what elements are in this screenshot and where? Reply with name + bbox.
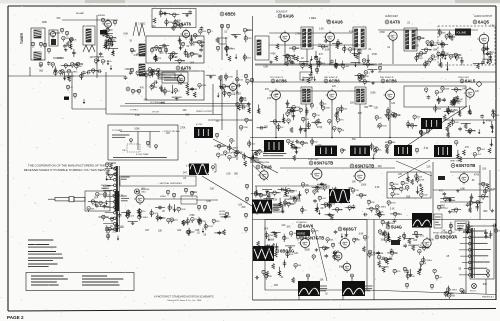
wire [312, 122, 322, 124]
svg-text:.005: .005 [273, 285, 278, 287]
resistor R452 12K [445, 291, 453, 296]
resistor R411 10K [368, 253, 376, 258]
coil L2 [34, 52, 41, 60]
svg-text:.001: .001 [143, 100, 148, 102]
svg-text:15K: 15K [135, 91, 140, 93]
svg-text:6AU6: 6AU6 [332, 20, 343, 25]
ground [64, 48, 68, 51]
transformer (solid) T15 horiz blocking transformer [329, 189, 351, 203]
svg-text:6CB6: 6CB6 [329, 79, 340, 84]
ground [336, 111, 340, 114]
wire [263, 197, 273, 199]
transformer (solid) T19 power T [342, 281, 365, 296]
svg-text:12K: 12K [248, 38, 252, 40]
resistor R94 56K [349, 48, 357, 53]
service note box [108, 125, 178, 160]
capacitor C26 [481, 61, 485, 65]
svg-text:1K: 1K [373, 155, 376, 157]
resistor R31 220K [64, 64, 73, 69]
fine print [159, 75, 171, 77]
resistor R330 56K [301, 183, 309, 188]
resistor R333 33K [328, 202, 336, 207]
resistor R290 150 [156, 216, 164, 221]
wire [299, 191, 301, 199]
wire [250, 137, 496, 139]
wire [253, 248, 263, 250]
resistor R435 [408, 238, 411, 244]
resistor R200 220K [287, 109, 296, 114]
resistor R401 1K [283, 236, 290, 241]
wire [478, 183, 488, 185]
resistor R189 150 [313, 113, 321, 118]
resistor R99 [276, 44, 279, 50]
transformer (solid) T17 horiz output transformer [253, 246, 274, 261]
resistor R273 [99, 201, 102, 206]
IF transformer T1 [301, 27, 313, 49]
resistor R275 10K [87, 207, 95, 212]
svg-text:33K: 33K [66, 38, 70, 40]
tube V16 [310, 167, 322, 181]
transformer (solid) T8 T1 [264, 140, 284, 152]
ground arrow [341, 233, 343, 238]
wire [244, 53, 246, 61]
fine print [121, 196, 129, 201]
resistor R308 33K [212, 219, 220, 224]
svg-text:470K: 470K [364, 76, 369, 78]
svg-text:C4D: C4D [122, 150, 126, 152]
svg-text:1 MEG: 1 MEG [141, 217, 148, 219]
resistor R39 [130, 48, 133, 53]
junction [329, 63, 331, 65]
wire [287, 250, 289, 258]
transformer (solid) T13 width coil [189, 164, 210, 176]
svg-text:68K: 68K [433, 49, 438, 51]
resistor R161 220K [239, 126, 248, 131]
wire [332, 208, 342, 210]
resistor R70 [228, 56, 231, 62]
resistor R409 [363, 246, 366, 252]
socket body (solid) [115, 191, 120, 211]
fine print [28, 264, 58, 267]
svg-text:6CB6: 6CB6 [386, 79, 397, 84]
capacitor C82 [466, 203, 470, 207]
wire [214, 145, 224, 147]
svg-text:22K: 22K [177, 21, 182, 23]
resistor R104 [315, 68, 318, 73]
wire [188, 228, 190, 236]
resistor R129 [439, 62, 442, 67]
wire [461, 122, 471, 124]
resistor R59 12K [148, 68, 156, 73]
resistor R350 .05 [266, 192, 274, 197]
svg-text:.047: .047 [145, 230, 150, 232]
wire [64, 75, 74, 77]
wire [156, 217, 166, 219]
svg-text:.047: .047 [305, 102, 310, 104]
ground [106, 33, 110, 36]
resistor R178 [155, 145, 158, 150]
ground arrow [202, 228, 204, 233]
wire [463, 231, 473, 233]
wire [147, 70, 157, 72]
svg-text:©Howard W. Sams & Co., Inc. 19: ©Howard W. Sams & Co., Inc. 1954 [167, 299, 203, 302]
resistor R80 [362, 59, 365, 64]
component value labels [263, 86, 494, 157]
svg-text:1 MEG: 1 MEG [186, 166, 193, 168]
svg-text:.047: .047 [320, 208, 325, 210]
wire [438, 43, 448, 45]
resistor R394 .05 [256, 247, 264, 252]
resistor R442 1K [420, 261, 427, 266]
resistor R400 [272, 243, 275, 249]
ground [315, 248, 319, 251]
wire [465, 222, 467, 294]
capacitor C22 [330, 59, 334, 63]
resistor R295 [190, 191, 193, 196]
resistor R204 .01 [277, 125, 285, 130]
wire [283, 234, 285, 242]
svg-text:TO PIN 2: TO PIN 2 [130, 110, 138, 112]
box [273, 204, 282, 212]
resistor R370 33K [444, 197, 452, 202]
tube V1 [48, 29, 55, 38]
wire [476, 203, 478, 211]
resistor R236 1 MEG [387, 115, 398, 120]
resistor R233 [443, 115, 446, 121]
wire [288, 110, 298, 112]
svg-text:270K: 270K [295, 33, 301, 35]
svg-text:1 MEG: 1 MEG [309, 18, 316, 20]
tube callout 6SN7GTB [309, 161, 333, 166]
wire [331, 100, 333, 138]
resistor R201 [287, 119, 290, 124]
capacitor C56 [446, 108, 450, 112]
resistor R14 [153, 18, 156, 24]
ground arrow [483, 119, 485, 124]
wire [168, 52, 178, 54]
ground [384, 113, 388, 116]
resistor R137 +B [66, 85, 73, 90]
svg-text:470K: 470K [395, 194, 400, 196]
wire [231, 34, 241, 36]
resistor R2 [39, 42, 42, 47]
resistor R361 [406, 186, 409, 191]
svg-text:56K: 56K [249, 120, 253, 122]
resistor R277 [115, 167, 118, 172]
wire [94, 56, 104, 58]
capacitor C27 [484, 46, 488, 50]
wire [451, 54, 461, 56]
resistor R136 [378, 66, 381, 71]
wire [319, 247, 329, 249]
svg-text:1K: 1K [225, 38, 228, 40]
svg-text:220K: 220K [227, 153, 232, 155]
capacitor C86 [476, 205, 480, 209]
resistor R257 [488, 148, 491, 154]
wire [301, 206, 303, 214]
svg-text:68K: 68K [270, 240, 275, 242]
svg-text:.047: .047 [462, 88, 467, 90]
svg-text:15K: 15K [56, 18, 61, 20]
waveform sketch [133, 22, 145, 36]
wire [317, 59, 319, 67]
wire [240, 96, 242, 104]
dark control label [391, 240, 400, 245]
osc box [49, 30, 58, 46]
resistor R377 [378, 213, 381, 218]
wire [407, 272, 409, 280]
resistor R254 [386, 148, 389, 154]
resistor R168 56K [239, 98, 247, 103]
resistor R271 [236, 150, 239, 155]
resistor R329 10K [351, 189, 359, 194]
resistor R374 .1 [482, 182, 488, 187]
wire [490, 231, 492, 239]
wire [386, 144, 388, 152]
resistor R318 [245, 184, 248, 189]
capacitor C61 [458, 127, 462, 131]
wire [196, 199, 218, 201]
wire [437, 96, 439, 104]
svg-text:470K: 470K [228, 77, 233, 79]
resistor R173 [244, 161, 247, 167]
resistor R28 [51, 63, 54, 68]
svg-text:6AL5: 6AL5 [465, 79, 476, 84]
capacitor C88 [393, 219, 397, 223]
svg-text:10K: 10K [355, 190, 359, 192]
svg-text:6BE6: 6BE6 [225, 12, 236, 17]
capacitor C15 [186, 54, 190, 58]
video amp box [146, 71, 204, 100]
resistor R88 56K [318, 61, 326, 66]
resistor R297 [137, 209, 140, 215]
resistor R412 100 [323, 246, 331, 251]
wire [307, 278, 309, 282]
capacitor C44 [254, 151, 258, 155]
junction [275, 137, 277, 139]
resistor R121 10K [431, 55, 439, 60]
fine print [274, 206, 280, 210]
capacitor C96 [333, 251, 337, 255]
wire [424, 60, 426, 68]
resistor R278 [115, 173, 118, 178]
resistor R262 .002 [473, 153, 482, 158]
svg-text:100K: 100K [42, 22, 48, 24]
wire [457, 150, 459, 158]
svg-text:.005: .005 [338, 267, 343, 269]
resistor R91 [355, 54, 358, 60]
ground [200, 44, 204, 47]
resistor R416 [266, 271, 269, 277]
resistor R25 [109, 38, 112, 43]
svg-text:6AT6: 6AT6 [181, 22, 192, 27]
ground arrow [105, 200, 107, 205]
capacitor C18 [199, 48, 203, 52]
svg-text:3RD VIDEO IF: 3RD VIDEO IF [380, 77, 394, 79]
resistor R198 1K [315, 121, 322, 126]
svg-text:1 MEG: 1 MEG [105, 61, 112, 63]
resistor R68 [216, 37, 219, 43]
resistor R63 [157, 68, 160, 73]
wire [106, 162, 116, 164]
resistor R332 [315, 207, 318, 213]
wire [343, 45, 345, 53]
wire [279, 267, 281, 275]
wire [390, 213, 400, 215]
resistor R282 .01 [116, 225, 124, 230]
resistor R76 [216, 46, 219, 51]
component value labels [39, 18, 237, 73]
svg-text:.005: .005 [451, 211, 456, 213]
capacitor C12 [162, 43, 166, 47]
tube callout 6AT6 [176, 66, 191, 71]
resistor R336 [330, 215, 333, 221]
capacitor C101 [255, 276, 259, 280]
resistor R62 .1 [151, 69, 157, 74]
ground [281, 210, 285, 213]
wire [255, 185, 330, 187]
wire [388, 113, 390, 121]
ground [265, 190, 269, 193]
resistor R418 33K [265, 274, 273, 279]
wire [225, 73, 227, 81]
junction [389, 137, 391, 139]
ground arrow [112, 49, 114, 54]
resistor R42 [148, 72, 151, 77]
capacitor C94 [484, 235, 488, 239]
resistor R292 220K [177, 207, 186, 212]
resistor R157 10K [222, 85, 230, 90]
svg-text:47K: 47K [397, 271, 401, 273]
resistor R143 1 MEG [67, 70, 78, 75]
resistor R455 .1 [460, 289, 466, 294]
resistor R249 100 [310, 140, 318, 145]
wire [336, 111, 338, 119]
wire [169, 14, 179, 16]
wire [251, 193, 261, 195]
svg-text:10K: 10K [91, 208, 95, 210]
wire [444, 111, 454, 113]
sound if box [146, 36, 204, 63]
resistor R221 [446, 126, 449, 132]
ground arrow [353, 52, 355, 57]
wire [108, 48, 118, 50]
capacitor C39 [241, 106, 245, 110]
resistor R276 100 [96, 193, 104, 198]
resistor R138 [73, 93, 76, 98]
wire [305, 104, 307, 138]
resistor R386 [414, 231, 417, 236]
wire [285, 245, 295, 247]
capacitor C28 [489, 55, 493, 59]
resistor R312 .05 [191, 218, 199, 223]
tube callout 6AT6 [385, 20, 400, 25]
wire [360, 81, 370, 83]
wire [342, 296, 344, 300]
resistor R44 12K [169, 55, 177, 60]
resistor R186 .01 [320, 102, 328, 107]
bracket [214, 164, 216, 172]
svg-text:6CB6: 6CB6 [276, 79, 287, 84]
resistor R171 .1 [243, 155, 249, 160]
wire [329, 200, 331, 208]
svg-text:1K: 1K [491, 128, 494, 130]
svg-text:220K: 220K [382, 125, 387, 127]
svg-text:1K: 1K [129, 41, 132, 43]
component value labels [134, 84, 247, 136]
wire [358, 49, 360, 64]
resistor R299 150 [138, 209, 146, 214]
resistor R447 [487, 270, 490, 275]
resistor R18 .01 [105, 42, 113, 47]
svg-text:SYNC SEP: SYNC SEP [308, 159, 319, 161]
wire [245, 34, 247, 42]
resistor R60 470K [157, 73, 166, 78]
input filter box [152, 9, 196, 28]
capacitor C19 [129, 71, 133, 75]
resistor R311 100 [187, 230, 195, 235]
resistor R323 100 [287, 202, 295, 207]
capacitor C102 [386, 233, 390, 237]
resistor R87 [358, 49, 361, 54]
resistor R152 [131, 89, 134, 94]
capacitor C41 [247, 102, 251, 106]
resistor R446 [433, 269, 436, 274]
wire [417, 186, 419, 194]
wire [381, 258, 391, 260]
svg-text:10K: 10K [445, 53, 449, 55]
svg-text:3.3K: 3.3K [491, 189, 496, 191]
resistor R320 [244, 213, 247, 218]
wire [73, 49, 75, 57]
svg-text:47K: 47K [465, 147, 470, 149]
resistor R375 47K [437, 205, 445, 210]
wire [88, 201, 98, 203]
transformer (solid) T10 T3 [350, 146, 370, 157]
dark control label [296, 230, 310, 236]
resistor R326 [284, 191, 287, 197]
resistor R77 270 [225, 46, 233, 51]
capacitor C98 [325, 254, 329, 258]
svg-text:.047: .047 [182, 173, 187, 175]
transformer (solid) T18 audio output T [298, 281, 320, 296]
wire [127, 210, 129, 218]
capacitor C100 [283, 261, 287, 265]
wire [282, 206, 284, 214]
resistor R351 .047 [273, 191, 282, 196]
wire [164, 87, 166, 95]
resistor R384 1 MEG [376, 205, 387, 210]
resistor R369 [486, 184, 489, 190]
ground arrow [478, 129, 480, 134]
resistor R309 [225, 212, 228, 217]
resistor R450 [430, 284, 433, 289]
wire [284, 260, 286, 268]
resistor R199 [337, 108, 340, 113]
wire [306, 108, 308, 116]
resistor R54 47K [190, 40, 198, 45]
resistor R267 .002 [228, 156, 237, 161]
wire [8, 75, 125, 77]
svg-text:.005: .005 [177, 84, 182, 86]
wire [331, 64, 341, 66]
svg-text:VERT OSC: VERT OSC [450, 161, 461, 163]
resistor R407 [331, 243, 334, 248]
resistor R26 [101, 18, 104, 23]
resistor R226 10K [492, 113, 500, 118]
resistor R117 56K [417, 36, 425, 41]
capacitor C57 [468, 110, 472, 114]
